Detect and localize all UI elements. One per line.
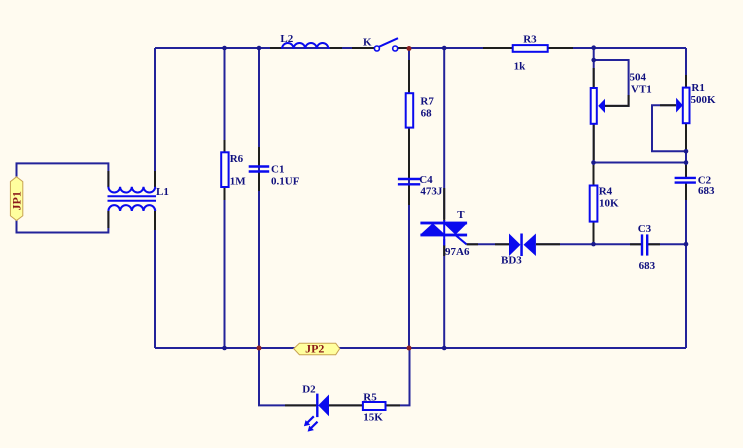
- svg-text:1M: 1M: [230, 175, 247, 187]
- svg-text:C4: C4: [419, 174, 433, 186]
- svg-text:T: T: [457, 209, 465, 221]
- svg-text:JP2: JP2: [305, 341, 324, 355]
- svg-text:R6: R6: [230, 153, 244, 165]
- svg-text:504: 504: [630, 72, 647, 84]
- svg-text:R5: R5: [363, 391, 377, 403]
- svg-text:473J: 473J: [420, 185, 443, 197]
- svg-text:R3: R3: [523, 33, 537, 45]
- svg-text:0.1UF: 0.1UF: [271, 175, 300, 187]
- svg-text:R7: R7: [420, 95, 434, 107]
- svg-text:BD3: BD3: [501, 255, 522, 267]
- svg-text:15K: 15K: [363, 412, 383, 424]
- svg-text:10K: 10K: [599, 197, 619, 209]
- svg-text:C3: C3: [638, 223, 652, 235]
- svg-text:L2: L2: [280, 33, 293, 45]
- svg-text:R4: R4: [599, 186, 613, 198]
- svg-text:D2: D2: [302, 383, 316, 395]
- svg-text:68: 68: [421, 107, 433, 119]
- svg-text:683: 683: [698, 185, 715, 197]
- svg-text:1k: 1k: [514, 60, 527, 72]
- svg-text:R1: R1: [691, 82, 704, 94]
- svg-text:K: K: [363, 37, 372, 49]
- svg-text:97A6: 97A6: [445, 246, 470, 258]
- svg-text:683: 683: [639, 260, 656, 272]
- svg-text:500K: 500K: [691, 94, 717, 106]
- svg-text:JP1: JP1: [10, 191, 24, 210]
- svg-text:C1: C1: [271, 163, 284, 175]
- svg-text:VT1: VT1: [631, 83, 652, 95]
- svg-text:L1: L1: [156, 186, 169, 198]
